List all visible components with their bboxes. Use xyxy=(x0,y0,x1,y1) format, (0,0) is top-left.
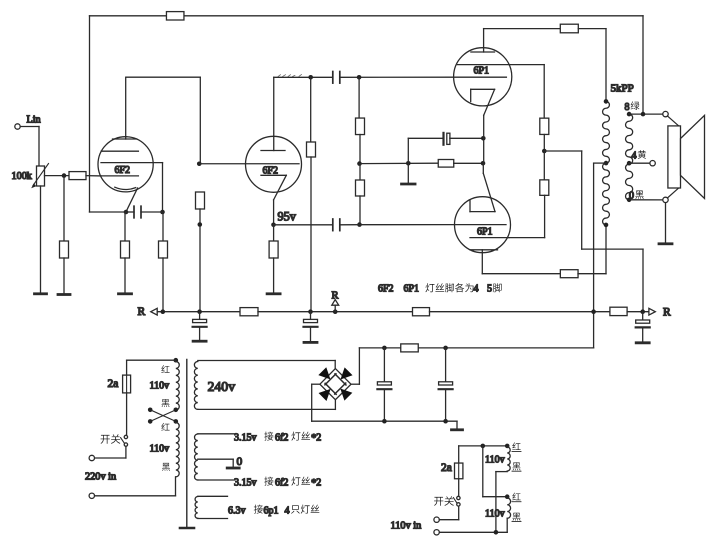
node 110v w1 top xyxy=(505,444,510,449)
resistor cathode V1 xyxy=(121,241,130,258)
node rail B+ entry xyxy=(591,309,596,314)
wire cathode V2 to ground xyxy=(273,258,275,293)
wire plate load V2 to rail xyxy=(310,157,312,312)
label 110v 1 xyxy=(150,381,170,392)
svg-text:6F2: 6F2 xyxy=(263,166,279,177)
tube V2 6F2 second stage xyxy=(246,77,302,200)
ground PSU xyxy=(452,428,463,431)
label black B xyxy=(512,513,521,522)
svg-text:220v in: 220v in xyxy=(85,472,116,483)
resistor plate load V2 xyxy=(307,142,316,157)
ground cathode V2 xyxy=(267,292,280,295)
node PSU minus 2 xyxy=(443,419,448,424)
wire 0 tap xyxy=(629,199,663,201)
node rail plate-load-2 xyxy=(308,309,313,314)
wire filter cap 2 stem xyxy=(310,312,312,320)
svg-text:5kPP: 5kPP xyxy=(611,83,634,95)
wire ground bus xyxy=(360,162,439,164)
node screen supply xyxy=(542,149,547,154)
wire plate V2 to coupling xyxy=(274,76,333,78)
label 6.3v xyxy=(228,505,319,517)
label 0 black xyxy=(629,190,644,201)
label black A xyxy=(512,462,521,471)
wire bridge minus xyxy=(312,384,320,421)
label 110v B xyxy=(485,509,505,520)
label black 1 xyxy=(162,399,170,407)
wire ground stem xyxy=(407,163,409,183)
switch left xyxy=(121,435,128,446)
label 8 green xyxy=(625,101,640,112)
bridge rectifier D1-D4 xyxy=(317,366,354,403)
svg-text:3.15v: 3.15v xyxy=(234,477,257,488)
transformer T1 secondary 6.3v xyxy=(195,497,198,519)
wire cathode resistor V1 xyxy=(124,212,126,241)
ground grid leak xyxy=(58,293,70,296)
svg-text:95v: 95v xyxy=(278,210,297,224)
wire input to pot xyxy=(20,127,39,167)
label red 2 xyxy=(161,423,169,431)
feedback wire top rail xyxy=(90,16,644,212)
svg-text:2a: 2a xyxy=(108,378,119,390)
label Lin xyxy=(27,115,41,126)
svg-text:110v: 110v xyxy=(150,444,170,455)
svg-text:R: R xyxy=(663,307,671,319)
svg-text:6p1: 6p1 xyxy=(264,505,279,516)
wire filter cap 2 gnd xyxy=(310,327,312,341)
transformer T1 secondary 3.15v xyxy=(195,434,198,480)
note filament pins xyxy=(378,283,502,294)
wire grid leak 6P1b lower xyxy=(359,196,361,225)
node stray on plate-load wire xyxy=(198,222,203,227)
svg-text:Lin: Lin xyxy=(27,115,41,126)
fuse 2a left xyxy=(123,375,131,393)
label 110v in xyxy=(391,521,422,532)
svg-text:8: 8 xyxy=(625,102,630,113)
wire g2 V3 tap xyxy=(509,65,544,119)
node cathode V2 95v xyxy=(271,223,276,228)
svg-text:6F2: 6F2 xyxy=(378,284,394,295)
wire screen tap down xyxy=(162,163,164,212)
wire terminal to switch xyxy=(439,506,458,520)
capacitor rail filter 1 xyxy=(193,319,207,326)
label 3.15v a xyxy=(234,432,321,444)
capacitor rail filter 2 xyxy=(304,319,318,326)
node primary top xyxy=(174,358,179,363)
node bypass-cathode xyxy=(481,136,486,141)
capacitor coupling C3 bottom xyxy=(333,219,340,231)
ground bias network xyxy=(402,183,416,186)
resistor screen V3 xyxy=(540,118,549,134)
wire grid leak xyxy=(63,176,65,241)
wire cap to screen node xyxy=(141,211,163,213)
svg-text:4: 4 xyxy=(474,284,479,295)
transformer OPT primary xyxy=(603,99,610,227)
node rail cathode-res xyxy=(161,309,166,314)
svg-text:0: 0 xyxy=(237,456,243,468)
label red B xyxy=(512,493,521,502)
resistor plate stopper V3 xyxy=(560,24,578,33)
label red A xyxy=(512,442,521,451)
ground speaker xyxy=(659,242,672,245)
wire 0 to ground xyxy=(665,203,667,243)
fuse 2a right xyxy=(455,463,463,479)
node 110v w2 top xyxy=(505,494,510,499)
resistor screen V1 xyxy=(159,241,168,258)
label switch right xyxy=(434,496,454,506)
switch right xyxy=(453,496,460,506)
svg-text:5: 5 xyxy=(487,284,492,295)
wire to 6F2a grid xyxy=(86,175,101,177)
svg-text:110v in: 110v in xyxy=(391,521,422,532)
node grid V2 xyxy=(197,161,202,166)
svg-text:R: R xyxy=(332,291,339,302)
wire grid leak to gnd node xyxy=(359,135,361,164)
wire grid leak to ground xyxy=(63,258,65,294)
feedback wire to cathode xyxy=(90,211,127,213)
wire cathode V3 down xyxy=(483,115,485,163)
wire pot to ground xyxy=(40,186,42,293)
node 110v join xyxy=(494,530,499,535)
node plate V2 wire xyxy=(308,75,313,80)
wire plate bracket V1-V2 xyxy=(126,77,200,164)
wire cathode res to ground xyxy=(124,258,126,293)
wire switch to fuse xyxy=(458,479,460,496)
node rail screens feed xyxy=(640,309,645,314)
wire cap to grid 6P1a xyxy=(340,76,454,78)
terminal 0 black xyxy=(663,197,668,202)
svg-text:4: 4 xyxy=(285,505,290,516)
node rail R marker xyxy=(333,309,338,314)
label 6F2 V1 xyxy=(115,165,131,176)
tube V3 6P1 upper output xyxy=(454,29,512,116)
net marker R up xyxy=(332,291,339,312)
rail B+ left xyxy=(157,311,240,313)
net arrow R right xyxy=(649,308,655,315)
wire bypass cap left xyxy=(408,138,442,162)
transformer T1 primary winding 1 xyxy=(176,362,179,410)
wire plate load to rail xyxy=(199,209,201,312)
resistor screen V4 xyxy=(540,180,549,196)
label 110v 2 xyxy=(150,444,170,455)
label 2a left xyxy=(108,378,119,390)
transformer T1 core xyxy=(180,360,194,529)
node ground bus right xyxy=(406,161,411,166)
transformer OPT secondary xyxy=(626,112,633,202)
transformer T1 secondary 240v xyxy=(194,362,197,410)
svg-text:6P1: 6P1 xyxy=(404,284,420,295)
wire cathode res to node xyxy=(454,162,483,164)
tube V1 6F2 first stage xyxy=(98,77,163,212)
svg-text:6.3v: 6.3v xyxy=(228,505,246,516)
wire 240v bottom to bridge xyxy=(198,400,336,409)
wire cathode res V2 xyxy=(273,225,275,241)
wire switch to terminal xyxy=(95,446,126,458)
capacitor rail filter 3 xyxy=(636,320,650,327)
resistor grid leak 6P1a xyxy=(356,118,365,135)
net arrow R left xyxy=(151,308,157,315)
label 4 yellow xyxy=(632,150,647,161)
label 220v in xyxy=(85,472,116,483)
wire PSU cap2 top xyxy=(445,348,447,382)
svg-text:3.15v: 3.15v xyxy=(234,432,257,443)
svg-text:6F2: 6F2 xyxy=(115,165,131,176)
label 110v A xyxy=(485,455,505,466)
label red 1 xyxy=(161,365,169,373)
wire feed to OPT top xyxy=(578,29,606,102)
wire grid V2 xyxy=(199,163,245,165)
svg-text:R: R xyxy=(138,306,146,318)
input terminal Lin xyxy=(15,124,20,129)
transformer T1 primary winding 2 xyxy=(176,422,179,476)
rail PSU minus xyxy=(312,421,457,429)
wire bridge plus xyxy=(351,348,359,384)
node cathode 6P1 common xyxy=(481,161,486,166)
label R right xyxy=(663,307,671,319)
series cross link xyxy=(148,408,178,424)
wire fuse to switch xyxy=(126,393,128,435)
svg-text:2: 2 xyxy=(316,432,321,443)
terminal 8 green xyxy=(663,111,668,116)
wire plate V4 down xyxy=(481,250,483,274)
node pot-grid junction xyxy=(62,173,67,178)
wire filter cap 1 stem xyxy=(199,312,201,320)
wire screen node to resistor xyxy=(543,151,545,180)
node 110v mid top xyxy=(481,444,486,449)
terminal 220v N xyxy=(89,493,94,498)
wire plate V4 feed xyxy=(482,273,560,275)
wire 6.3v bottom xyxy=(198,518,228,520)
wire PSU cap2 bottom xyxy=(445,390,447,422)
node grid network top xyxy=(357,75,362,80)
resistor plate stopper V4 xyxy=(560,270,578,278)
capacitor PSU filter 1 xyxy=(377,382,391,389)
node PSU cap 1 xyxy=(382,346,387,351)
wire pot wiper xyxy=(45,175,70,177)
node grid network bottom xyxy=(357,222,362,227)
wire grid leak 6P1a upper xyxy=(358,77,360,118)
rail B+ far right xyxy=(627,311,649,313)
wire w2 bottom xyxy=(439,518,507,532)
resistor PSU filter xyxy=(401,344,419,352)
node ground bus left xyxy=(357,161,362,166)
capacitor coupling C2 top xyxy=(333,72,340,84)
label 6F2 V2 xyxy=(263,166,279,177)
resistor rail decoupling 2 xyxy=(413,308,430,316)
wire PSU cap1 top xyxy=(383,348,385,382)
resistor grid leak 6P1b xyxy=(356,180,365,196)
wire 3.15v bottom xyxy=(198,479,234,481)
wire g2 V4 tap xyxy=(509,195,545,237)
label 95v xyxy=(278,210,297,224)
terminal 220v L xyxy=(89,455,94,460)
label 240v xyxy=(208,379,236,394)
wire fuse to primary xyxy=(127,360,176,375)
svg-text:6P1: 6P1 xyxy=(474,66,490,77)
svg-text:2: 2 xyxy=(316,477,321,488)
terminal 110v L xyxy=(434,517,439,522)
svg-text:6f2: 6f2 xyxy=(275,432,288,443)
resistor grid leak 6F2a xyxy=(60,241,69,258)
ground pot xyxy=(35,292,47,295)
label R left xyxy=(138,306,146,318)
artifact ticks xyxy=(278,75,302,77)
terminal 4 yellow xyxy=(650,161,655,166)
resistor rail decoupling 1 xyxy=(240,308,258,316)
resistor cathode V2 xyxy=(269,241,278,258)
terminal 110v N xyxy=(434,530,439,535)
resistor rail decoupling 3 xyxy=(610,307,627,315)
wire bypass cap right xyxy=(450,137,483,139)
label 3.15v b xyxy=(234,477,321,489)
resistor grid stopper xyxy=(69,172,86,180)
wire screen node upper xyxy=(543,135,545,152)
wire screen res to rail xyxy=(162,258,164,312)
resistor plate load V1 xyxy=(196,192,205,209)
rail B+ right xyxy=(430,311,611,313)
wire cathode V2 coupling xyxy=(274,224,333,226)
svg-text:4: 4 xyxy=(632,151,637,162)
wire w1 bottom xyxy=(496,472,507,533)
rail PSU B+ xyxy=(359,347,593,349)
capacitor cathode bypass C1 xyxy=(134,206,141,218)
ground rail filter 3 xyxy=(636,341,649,344)
wire cathode V2 xyxy=(273,200,275,225)
winding 110v A xyxy=(507,447,510,471)
node PSU minus 1 xyxy=(382,419,387,424)
label 6P1 V4 xyxy=(477,227,493,238)
wire 3.15v tap xyxy=(198,459,233,467)
wire cap to grid 6P1b xyxy=(340,224,455,226)
capacitor cathode bypass 6P1 xyxy=(444,133,450,145)
wire filter cap 3 stem xyxy=(642,312,644,320)
wire 110v top xyxy=(459,446,508,463)
resistor feedback R in top rail xyxy=(166,12,184,20)
svg-text:6f2: 6f2 xyxy=(275,477,288,488)
node rail plate-load-1 xyxy=(197,309,202,314)
svg-text:100k: 100k xyxy=(12,171,33,182)
wire screen supply feed xyxy=(544,151,643,312)
wire 240v top to bridge xyxy=(198,361,335,369)
wire cathode V4 up xyxy=(482,163,484,173)
ground rail filter 1 xyxy=(193,340,206,343)
capacitor PSU filter 2 xyxy=(439,382,453,389)
wire mid vertical xyxy=(483,446,507,497)
wire cathode to cap xyxy=(126,211,134,213)
speaker xyxy=(667,115,704,198)
wire plate V3 feed xyxy=(484,28,561,30)
rail B+ mid xyxy=(258,311,413,313)
node feedback takeoff xyxy=(641,112,646,117)
svg-text:6P1: 6P1 xyxy=(477,227,493,238)
wire OPT center tap xyxy=(594,163,606,348)
ground cathode V1 xyxy=(119,292,132,295)
label switch left xyxy=(101,434,121,444)
svg-text:110v: 110v xyxy=(150,381,170,392)
wire plate load V2 xyxy=(310,77,312,142)
node screen-bypass V1 xyxy=(160,210,165,215)
wire 4 tap xyxy=(629,162,650,164)
label 6P1 V3 xyxy=(474,66,490,77)
ground rail filter 2 xyxy=(304,341,317,344)
wire screen res xyxy=(162,212,164,241)
node PSU cap 2 xyxy=(443,346,448,351)
svg-text:110v: 110v xyxy=(485,455,505,466)
wire terminal to primary 2 xyxy=(95,477,176,496)
svg-text:240v: 240v xyxy=(208,379,236,394)
svg-text:110v: 110v xyxy=(485,509,505,520)
label 5kPP xyxy=(611,83,634,95)
wire grid leak 6P1b upper xyxy=(359,164,361,180)
wire 6.3v top xyxy=(198,495,228,497)
svg-text:2a: 2a xyxy=(441,462,452,474)
wire filter cap 1 gnd xyxy=(199,327,201,340)
label 2a right xyxy=(441,462,452,474)
wire feed to OPT bottom xyxy=(578,225,606,274)
wire PSU cap1 bottom xyxy=(383,390,385,422)
resistor cathode 6P1 common xyxy=(438,160,454,168)
wire filter cap 3 gnd xyxy=(642,328,644,342)
label black 2 xyxy=(162,463,170,471)
potentiometer 100k xyxy=(31,164,48,189)
label 100k xyxy=(12,171,33,182)
wire 8 tap xyxy=(629,113,663,115)
node cathode V1 xyxy=(124,210,129,215)
tube V4 6P1 lower output xyxy=(455,173,511,252)
ground 0 tap xyxy=(227,456,242,468)
wire 3.15v top xyxy=(198,433,234,435)
winding 110v B xyxy=(507,498,510,518)
